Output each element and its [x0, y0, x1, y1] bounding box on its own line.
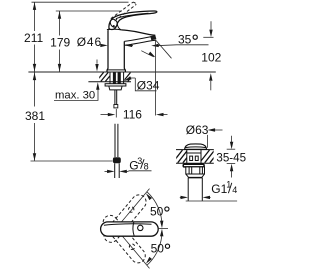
svg-text:381: 381 — [25, 109, 45, 123]
lever neck line — [117, 24, 121, 30]
svg-text:Ø46: Ø46 — [77, 35, 102, 49]
svg-text:3: 3 — [137, 156, 142, 166]
dim 116 right arrow — [162, 114, 168, 116]
dim 179 line upper — [59, 11, 61, 36]
dim O46 right arrow — [129, 44, 134, 46]
drain section hatch left — [173, 150, 193, 163]
svg-text:35-45: 35-45 — [216, 152, 246, 165]
aerator — [150, 35, 156, 40]
lever band inner line — [116, 13, 149, 18]
dim O34 box — [135, 78, 156, 91]
drain tail pipe — [187, 178, 189, 201]
dim 102 lower arrow — [210, 81, 212, 90]
svg-text:50: 50 — [150, 205, 164, 219]
lever pivot dot — [113, 25, 115, 27]
drain dim O63 extension line — [206, 135, 208, 148]
dim G114 left arrow — [180, 196, 182, 198]
spray direction line — [156, 40, 172, 58]
handle swivel ray lower — [120, 233, 150, 269]
dim 381 bottom tick — [31, 160, 113, 162]
mounting nut — [109, 86, 122, 90]
clamp washer — [105, 84, 126, 86]
faucet base line — [107, 69, 125, 71]
dim G38 right arrow — [126, 170, 129, 172]
hose thread end — [114, 163, 116, 178]
spout underside upper — [124, 37, 151, 42]
svg-text:max. 30: max. 30 — [55, 89, 95, 101]
handle top view outline — [101, 222, 159, 236]
dim O34 leader arrow — [127, 78, 136, 80]
lever handle outline — [109, 11, 157, 30]
counter section hatch right — [123, 72, 135, 81]
dim 116 axis tick — [115, 109, 117, 118]
dim max30 upper arrow — [96, 60, 98, 64]
spray angle arc — [141, 51, 154, 57]
svg-text:102: 102 — [201, 50, 221, 64]
dim 211 extension line top — [32, 1, 129, 3]
swivel arc lower — [147, 231, 162, 265]
lever knuckle ball — [109, 18, 119, 28]
mounting stud right — [118, 72, 121, 83]
dashed raised lever tip — [133, 2, 136, 4]
svg-text:116: 116 — [123, 107, 142, 121]
label G38 underline — [129, 170, 152, 172]
handle centerline — [159, 227, 168, 229]
dim 116 left arrow — [101, 114, 109, 116]
drain body taper — [186, 174, 189, 177]
dim G114 right arrow — [209, 196, 211, 198]
counter underside line — [88, 81, 131, 83]
svg-text:211: 211 — [24, 31, 43, 45]
dim max30 leader and lower arrow — [54, 90, 98, 101]
handle swivel ray upper — [120, 189, 150, 225]
label 35deg underline — [177, 44, 209, 46]
faucet body left edge — [107, 30, 108, 72]
svg-text:179: 179 — [50, 36, 70, 50]
drain hex body — [186, 167, 205, 174]
mounting stud left — [113, 72, 116, 83]
swivel arc upper — [147, 192, 162, 226]
faucet body top shoulder — [108, 27, 111, 30]
drain neck slots — [190, 156, 193, 160]
dashed handle rotated up — [101, 192, 149, 245]
dim 116 right extension line — [155, 40, 157, 115]
dim 3545 bottom tick — [227, 163, 236, 165]
dim 211 line upper — [34, 2, 36, 31]
dim 102 upper arrow — [210, 21, 212, 29]
faucet body top line — [107, 28, 121, 31]
drain section hatch right — [200, 150, 220, 163]
dim 3545 lower arrow — [231, 171, 233, 178]
label 35deg leader arrow — [156, 44, 177, 47]
dim 381 line lower — [34, 123, 36, 161]
faucet body right edge — [124, 41, 125, 72]
spout underside lower — [125, 40, 156, 45]
counter section hatch left — [96, 72, 113, 81]
svg-text:Ø34: Ø34 — [137, 78, 160, 92]
drain tail top edge — [188, 177, 202, 179]
handle grip separation — [133, 222, 134, 236]
drain counter bottom line — [176, 162, 214, 164]
drain neck — [187, 150, 201, 164]
handle top inner line — [104, 224, 152, 226]
mounting rod — [114, 90, 116, 105]
dim 211 line lower — [34, 45, 36, 72]
drain dim O63 arrow — [213, 129, 223, 131]
dim G38 left arrow — [105, 170, 108, 172]
svg-text:50: 50 — [151, 242, 165, 256]
svg-text:35: 35 — [178, 32, 192, 46]
dashed handle rotated down — [100, 212, 148, 265]
faucet shank edges — [109, 72, 111, 84]
drain cap inner line — [185, 146, 206, 149]
svg-text:Ø63: Ø63 — [186, 123, 209, 137]
label G114 underline — [186, 200, 237, 202]
svg-text:4: 4 — [232, 185, 237, 195]
counter surface line — [28, 71, 215, 73]
supply hose — [114, 124, 116, 157]
dim 381 line upper — [34, 72, 36, 106]
spout top edge — [121, 30, 155, 35]
hose nut G38 — [113, 157, 121, 163]
handle hole — [138, 225, 143, 230]
drain counter top line — [176, 149, 214, 151]
dim 3545 upper arrow — [231, 136, 233, 142]
drain cap — [185, 144, 207, 149]
dim 179 line lower — [59, 50, 61, 72]
dim 179 extension line — [56, 10, 122, 12]
dim 3545 top tick — [227, 148, 236, 150]
dim O46 left arrow — [101, 44, 104, 46]
svg-text:G1: G1 — [211, 182, 227, 196]
svg-text:8: 8 — [144, 161, 149, 171]
dim 102 top tick — [203, 36, 213, 38]
dashed raised lever line 1 — [111, 2, 133, 19]
dashed raised lever line 2 — [115, 4, 137, 21]
drain washer — [183, 164, 204, 167]
